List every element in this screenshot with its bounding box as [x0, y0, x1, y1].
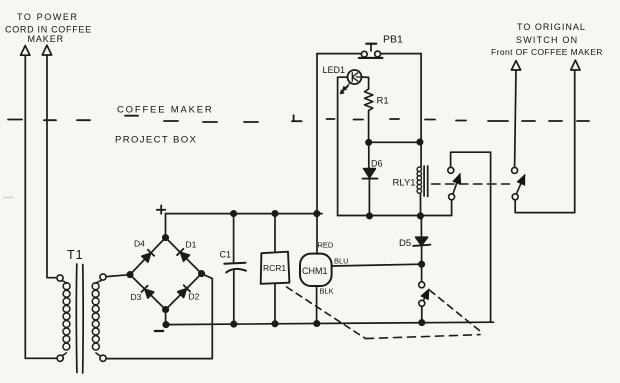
label: TO POWER CORD IN COFFEE MAKER — [5, 12, 92, 44]
resistor R1 — [365, 89, 373, 111]
svg-text:SWITCH ON: SWITCH ON — [516, 35, 578, 45]
wire: bridge + node up to +rail — [165, 214, 167, 238]
junction: PB/CHM at + rail — [314, 211, 319, 216]
arrow terminal: power cord lead A — [21, 46, 30, 56]
node: bridge - (bottom) — [163, 307, 168, 312]
wire: bridge - node down to - rail — [165, 310, 167, 325]
svg-text:PROJECT BOX: PROJECT BOX — [115, 135, 197, 146]
junction: - rail at bridge — [163, 322, 168, 327]
svg-text:R1: R1 — [377, 96, 389, 107]
svg-text:CORD IN COFFEE: CORD IN COFFEE — [5, 25, 92, 35]
relay coil RLY1 — [417, 167, 422, 172]
wire: PB1 left branch + CHM1 RED lead (vertical through + rail) — [316, 54, 318, 254]
wire: LED1 cathode to R1 top — [362, 77, 369, 89]
label: - — [155, 330, 163, 332]
label: TO ORIGINAL SWITCH ON Front OF COFFEE MAKER — [491, 22, 603, 57]
svg-text:TO POWER: TO POWER — [17, 12, 79, 22]
node: bridge AC right — [199, 271, 204, 276]
node: bridge + (top) — [163, 235, 168, 240]
net: - rail — [166, 322, 494, 324]
wire: CHM1 BLU lead to D5 cathode node — [332, 264, 422, 266]
svg-text:CHM1: CHM1 — [302, 266, 328, 276]
svg-text:MAKER: MAKER — [28, 34, 65, 44]
wire: T1 secondary top to bridge AC left node — [106, 275, 129, 277]
wire: CHM1 BLK lead to - rail — [316, 286, 318, 324]
LED1 — [348, 70, 362, 84]
wire: R1 bottom to D6 junction — [368, 111, 370, 143]
chime module CHM1 — [300, 254, 332, 286]
wire: K1 lower contact to node rail — [451, 200, 453, 216]
svg-text:D6: D6 — [371, 159, 383, 169]
junction: cross link at relay branch — [417, 139, 422, 144]
capacitor C1 bottom lead — [233, 270, 235, 325]
switch S2 lower contact — [419, 300, 425, 306]
wire: D6 anode to node rail — [368, 179, 370, 216]
transformer T1 secondary top terminal — [100, 274, 106, 280]
transformer T1 secondary winding — [96, 281, 101, 284]
diode D2 (bridge lower-right) — [178, 285, 190, 297]
wire: power cord lead B down to T1 primary top — [47, 55, 57, 278]
wire: relay coil bottom to node rail — [420, 194, 422, 217]
wire: bridge AC right node to T1 secondary bottom (AC return) — [106, 274, 212, 359]
divider dashed line: coffee maker / project box boundary — [8, 115, 589, 122]
dashed linkage: relay to remote switch — [432, 183, 510, 185]
svg-text:RCR1: RCR1 — [263, 263, 286, 273]
bridge rectifier edges — [130, 238, 202, 310]
junction: BLU wire at D5 branch — [419, 262, 424, 267]
wire: lead A down to S3 upper contact — [515, 70, 516, 167]
svg-text:D5: D5 — [399, 238, 411, 249]
transformer T1 primary bottom terminal — [57, 355, 63, 361]
wire: PB1 right branch down to relay coil — [420, 54, 422, 167]
transformer T1 secondary bottom terminal — [100, 355, 106, 361]
svg-text:PB1: PB1 — [383, 34, 403, 46]
svg-text:D2: D2 — [189, 292, 200, 302]
junction: R1/D6 node — [366, 140, 371, 145]
pushbutton PB1 — [359, 44, 383, 58]
wire: cross link R1 node to relay branch — [369, 141, 420, 143]
switch S3 arm — [516, 175, 524, 194]
svg-text:D1: D1 — [186, 240, 197, 250]
net: latch node rail — [338, 215, 452, 217]
junction: relay at node rail — [418, 213, 423, 218]
junction: RCR1 at + rail — [272, 211, 277, 216]
switch S3 upper contact — [512, 167, 518, 173]
svg-text:BLK: BLK — [320, 287, 334, 296]
arrow terminal: original switch lead B — [571, 60, 580, 70]
diode D3 (bridge lower-left) — [141, 286, 153, 298]
node: bridge AC left — [127, 272, 132, 277]
junction: D6 at node rail — [367, 213, 372, 218]
wire: S2 lower contact to - rail — [421, 306, 423, 322]
label: + — [157, 205, 165, 213]
LED1 emission arrows — [340, 83, 350, 94]
capacitor C1 top lead — [233, 214, 235, 264]
capacitor C1 — [224, 263, 245, 264]
relay RLY1 core — [424, 166, 428, 197]
transformer T1 primary top terminal — [57, 275, 63, 281]
switch S2 upper contact — [419, 282, 425, 288]
diode D4 (bridge upper-left) — [142, 250, 154, 262]
svg-text:LED1: LED1 — [323, 65, 346, 75]
relay contact K1 upper — [448, 167, 454, 173]
wire: D5 anode to switch contact — [421, 246, 423, 282]
svg-text:COFFEE MAKER: COFFEE MAKER — [117, 105, 214, 116]
svg-text:D4: D4 — [134, 239, 145, 249]
junction: C1 at - rail — [231, 321, 236, 326]
net: PB1 top rail — [317, 53, 421, 55]
switch S2 arm — [423, 290, 428, 301]
svg-text:RLY1: RLY1 — [393, 178, 416, 189]
diode D1 (bridge upper-right) — [177, 249, 189, 261]
arrow terminal: original switch lead A — [511, 61, 520, 70]
dashed control linkage: RCR1 to S2 — [287, 287, 366, 339]
net: + rail — [166, 213, 323, 215]
wire: S3 lower to original switch lead B — [515, 70, 575, 213]
module RCR1 — [261, 252, 290, 284]
RCR1 bottom lead — [274, 284, 276, 324]
relay contact K1 lower — [449, 194, 455, 200]
relay contact K1 arm — [453, 174, 460, 194]
arrow terminal: power cord lead B — [42, 45, 51, 55]
svg-text:TO ORIGINAL: TO ORIGINAL — [517, 22, 586, 32]
wire: LED1 anode lead down to node rail — [338, 77, 348, 215]
svg-text:T1: T1 — [67, 248, 84, 262]
junction: RCR1 at - rail — [272, 321, 277, 326]
junction: CHM1 BLK at - rail — [314, 321, 319, 326]
svg-text:D3: D3 — [131, 292, 142, 302]
svg-text:C1: C1 — [220, 250, 232, 260]
svg-text:BLU: BLU — [334, 257, 349, 266]
wire: output loop right side down to - rail — [490, 152, 492, 322]
RCR1 top lead — [274, 213, 276, 252]
transformer T1 core — [76, 264, 83, 373]
faint pencil dash left edge — [4, 197, 13, 199]
junction: C1 at + rail — [231, 211, 236, 216]
junction: S2 at - rail — [419, 320, 424, 325]
svg-text:RED: RED — [318, 241, 334, 250]
wire: power cord lead A down to T1 primary bottom — [25, 55, 56, 358]
diode D6 — [368, 142, 370, 168]
wire: relay contact upper to output loop — [451, 152, 491, 167]
diode D5 — [420, 216, 422, 237]
transformer T1 primary winding — [62, 281, 66, 284]
switch S3 lower contact — [512, 194, 518, 200]
svg-text:Front OF COFFEE MAKER: Front OF COFFEE MAKER — [491, 47, 603, 57]
